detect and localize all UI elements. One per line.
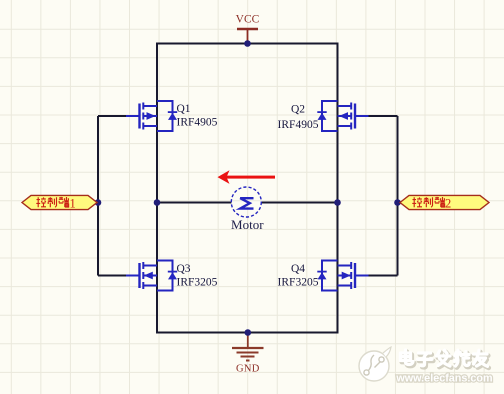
svg-text:IRF3205: IRF3205 <box>177 277 218 289</box>
wire: Q1 gate wire <box>98 115 127 117</box>
motor M letter (rotated M / sigma) <box>240 198 253 208</box>
svg-text:Q2: Q2 <box>291 104 305 116</box>
transistor Q3 <box>126 261 177 291</box>
svg-text:Q1: Q1 <box>177 103 191 115</box>
svg-text:GND: GND <box>236 364 260 375</box>
wire: bottom GND rail <box>157 332 338 334</box>
wire: right gate bus <box>397 116 399 276</box>
svg-text:www.elecfans.com: www.elecfans.com <box>395 373 492 385</box>
watermark text 电子发烧友 <box>402 352 489 368</box>
wire: Q3 gate wire <box>98 275 127 277</box>
svg-text:Q4: Q4 <box>291 263 305 275</box>
junction dot right rail / motor <box>334 199 341 206</box>
svg-text:IRF4905: IRF4905 <box>278 119 319 131</box>
svg-text:VCC: VCC <box>236 14 260 26</box>
wire: top VCC rail <box>157 43 338 45</box>
transistor Q4 <box>317 261 368 291</box>
wire: left gate bus <box>97 116 99 276</box>
svg-text:2: 2 <box>445 197 451 211</box>
power symbol VCC <box>236 14 260 44</box>
svg-text:Motor: Motor <box>231 217 264 232</box>
power symbol GND <box>232 333 264 375</box>
watermark logo circle <box>359 347 391 381</box>
transistor Q2 <box>317 101 368 131</box>
transistor Q1 <box>126 101 177 131</box>
svg-text:1: 1 <box>70 197 76 211</box>
junction dot at GND <box>245 329 252 336</box>
port 控制端2 <box>400 195 489 209</box>
wire: left bridge rail <box>156 43 158 334</box>
current direction red arrow <box>218 170 276 184</box>
wire: motor wire left segment <box>157 202 231 204</box>
junction dot right gate bus / port <box>394 199 401 206</box>
port 控制端2 text <box>412 197 445 207</box>
svg-text:IRF4905: IRF4905 <box>177 117 218 129</box>
svg-text:IRF3205: IRF3205 <box>278 277 319 289</box>
wire: motor wire right segment <box>261 202 337 204</box>
wire: right bridge rail <box>337 43 339 334</box>
junction dot left gate bus / port <box>95 199 102 206</box>
motor M1 circle <box>231 187 261 217</box>
junction dot at VCC <box>244 40 251 47</box>
wire: Q2 gate wire <box>368 115 398 117</box>
svg-text:Q3: Q3 <box>177 263 191 275</box>
wire: Q4 gate wire <box>368 275 398 277</box>
port 控制端1 text <box>36 197 69 207</box>
port 控制端1 <box>22 195 97 209</box>
junction dot left rail / motor <box>154 199 161 206</box>
